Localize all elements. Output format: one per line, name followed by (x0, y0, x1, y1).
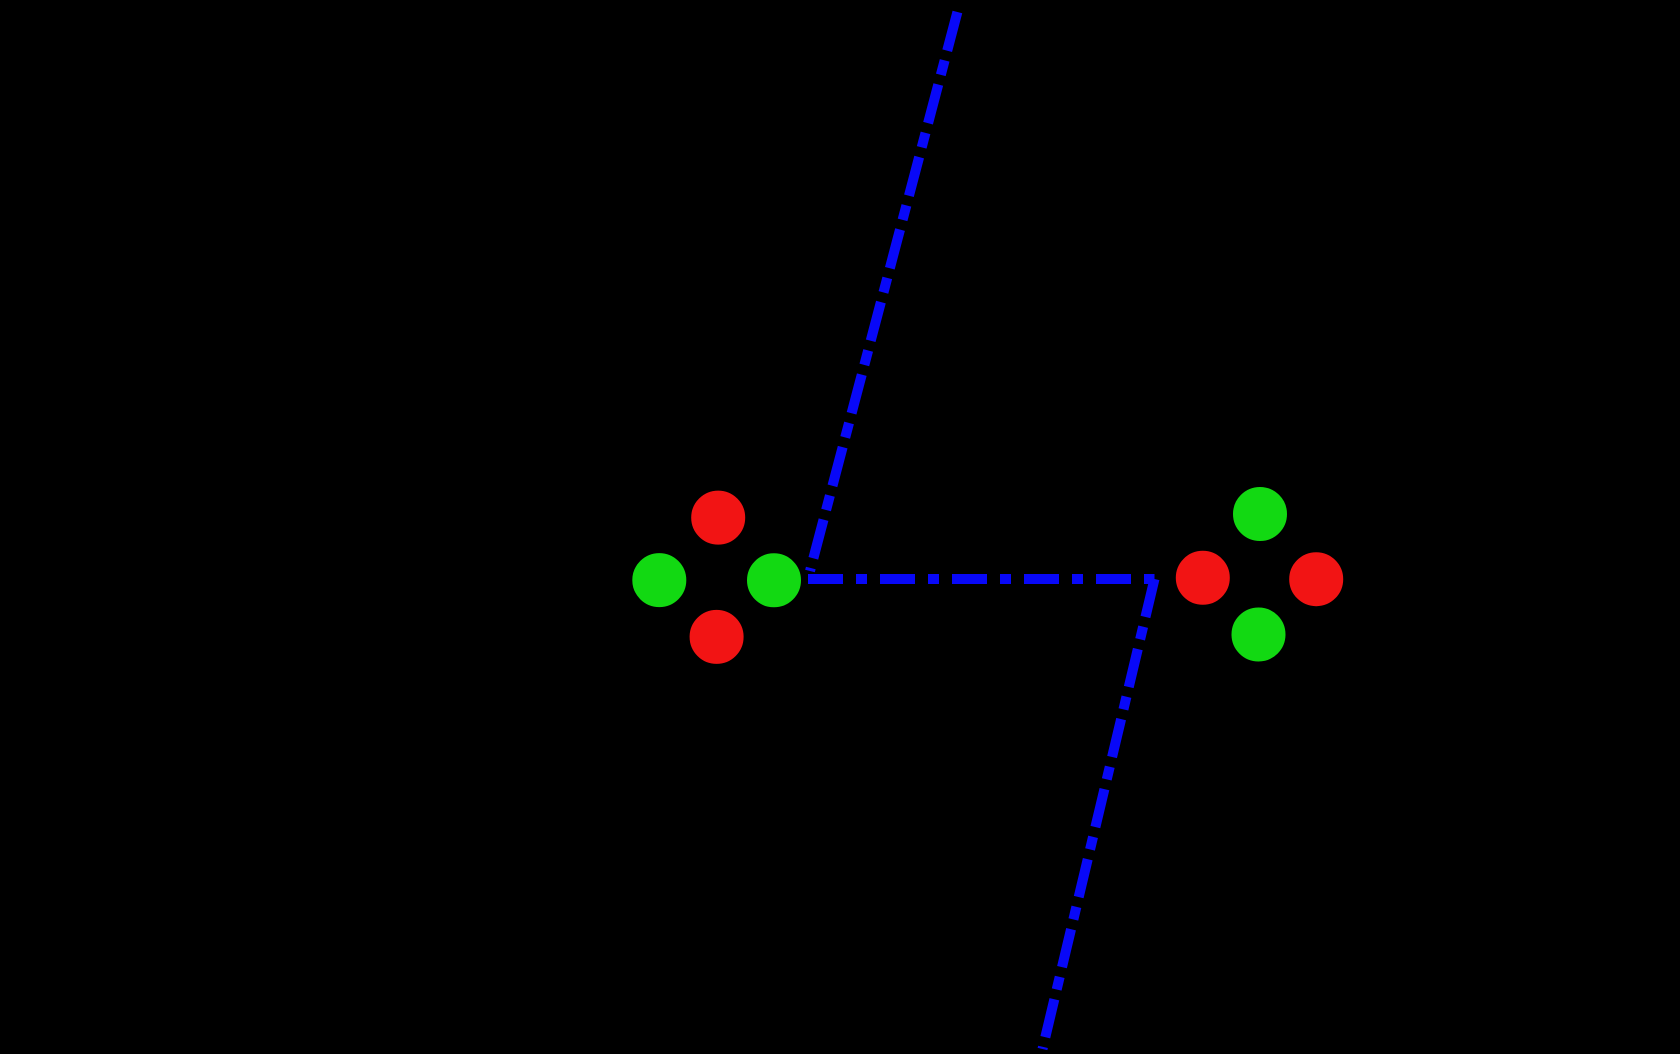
wire: upper slanted blue dash-dot segment (810, 12, 957, 571)
node: left cluster top red dot (690, 490, 746, 546)
node: left cluster bottom red dot (689, 609, 745, 665)
node: right cluster bottom green dot (1231, 607, 1287, 663)
node: right cluster left red dot (1175, 550, 1231, 606)
node: right cluster right red dot (1288, 551, 1344, 607)
wire: lower slanted blue dash-dot segment (1043, 579, 1155, 1049)
wire: horizontal blue dash-dot segment (808, 574, 1155, 584)
node: left cluster left green dot (631, 552, 687, 608)
node: left cluster right green dot (746, 552, 802, 608)
node: right cluster top green dot (1232, 486, 1288, 542)
